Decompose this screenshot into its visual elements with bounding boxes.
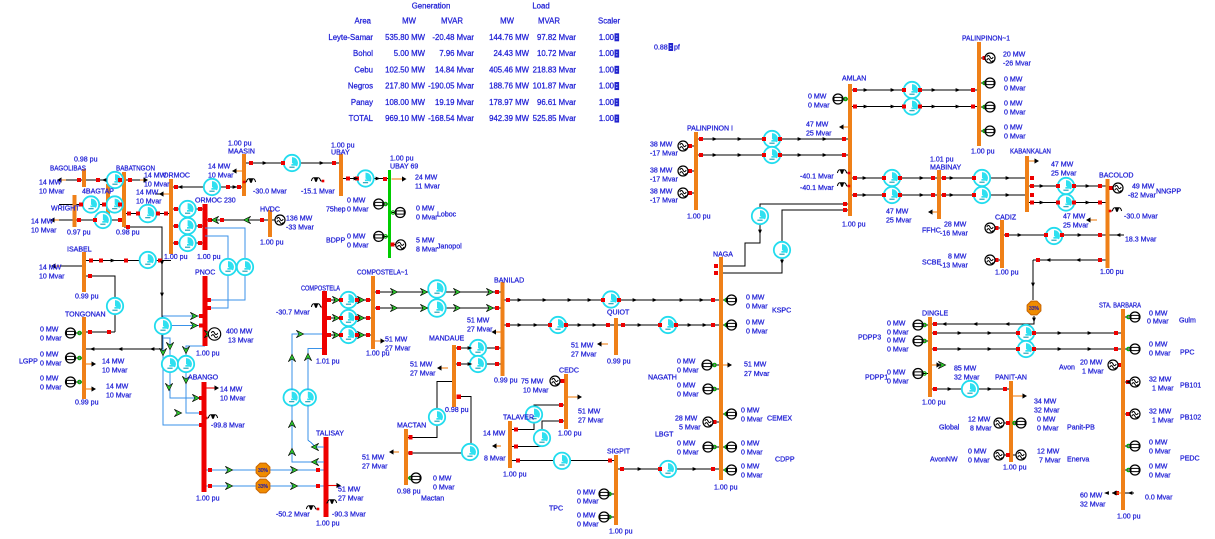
svg-text:0 Mvar: 0 Mvar <box>808 102 830 109</box>
svg-text:SCBE: SCBE <box>922 259 941 266</box>
svg-text:Area: Area <box>355 17 372 26</box>
svg-text:0 Mvar: 0 Mvar <box>887 346 909 353</box>
svg-text:0 Mvar: 0 Mvar <box>433 484 455 491</box>
svg-text:-40.1 Mvar: -40.1 Mvar <box>800 173 834 180</box>
svg-text:217.80 MW: 217.80 MW <box>385 82 426 91</box>
svg-text:10 Mvar: 10 Mvar <box>39 273 65 280</box>
svg-text:1.00 pu: 1.00 pu <box>390 155 414 162</box>
svg-text:7.96 Mvar: 7.96 Mvar <box>439 49 474 58</box>
svg-text:969.10 MW: 969.10 MW <box>385 114 426 123</box>
svg-text:MAASIN: MAASIN <box>228 148 255 155</box>
svg-text:0 Mvar: 0 Mvar <box>577 521 599 528</box>
svg-text:10 Mvar: 10 Mvar <box>31 227 57 234</box>
svg-text:4BAGTAP: 4BAGTAP <box>82 188 114 195</box>
svg-text:5.00 MW: 5.00 MW <box>394 49 426 58</box>
svg-text:0 MW: 0 MW <box>677 382 696 389</box>
svg-text:TPC: TPC <box>549 505 563 512</box>
svg-text:14 MW: 14 MW <box>220 386 243 393</box>
svg-text:27 Mvar: 27 Mvar <box>744 371 770 378</box>
svg-text:1.00 pu: 1.00 pu <box>1003 464 1027 471</box>
svg-text:144.76 MW: 144.76 MW <box>489 33 530 42</box>
svg-text:0 MW: 0 MW <box>1149 463 1168 470</box>
svg-text:HVDC: HVDC <box>260 206 280 213</box>
svg-text:0.0 Mvar: 0.0 Mvar <box>1145 494 1173 501</box>
svg-text:102.50 MW: 102.50 MW <box>385 66 426 75</box>
svg-text:BANILAD: BANILAD <box>494 277 524 284</box>
svg-text:1.00 pu: 1.00 pu <box>260 239 284 246</box>
svg-text:BACOLOD: BACOLOD <box>1099 172 1133 179</box>
svg-text:0 MW: 0 MW <box>677 440 696 447</box>
svg-text:1.00 pu: 1.00 pu <box>922 399 946 406</box>
svg-text:32 MW: 32 MW <box>1149 408 1172 415</box>
svg-text:-26 Mvar: -26 Mvar <box>1003 60 1031 67</box>
svg-text:8 Mvar: 8 Mvar <box>416 246 438 253</box>
svg-text:30%: 30% <box>258 468 269 474</box>
svg-text:0 MW: 0 MW <box>40 351 59 358</box>
svg-text:KSPC: KSPC <box>772 307 791 314</box>
svg-text:51 MW: 51 MW <box>385 336 408 343</box>
svg-text:LBGT: LBGT <box>655 431 674 438</box>
svg-text:AvonNW: AvonNW <box>930 456 958 463</box>
svg-text:Negros: Negros <box>348 82 373 91</box>
svg-text:14.84 Mvar: 14.84 Mvar <box>435 66 474 75</box>
svg-text:-90.3 Mvar: -90.3 Mvar <box>332 511 366 518</box>
svg-text:1.00 pu: 1.00 pu <box>503 471 527 478</box>
svg-text:0 MW: 0 MW <box>347 233 366 240</box>
svg-text:Enerva: Enerva <box>1067 456 1089 463</box>
svg-text:51 MW: 51 MW <box>338 486 361 493</box>
svg-text:Gulm: Gulm <box>1179 317 1196 324</box>
svg-text:0 Mvar: 0 Mvar <box>741 416 763 423</box>
svg-text:25 Mvar: 25 Mvar <box>1063 222 1089 229</box>
svg-text:0 MW: 0 MW <box>347 197 366 204</box>
svg-text:SIGPIT: SIGPIT <box>607 448 631 455</box>
svg-text:51 MW: 51 MW <box>467 317 490 324</box>
svg-text:0.98 pu: 0.98 pu <box>116 229 140 236</box>
svg-text:LGPP: LGPP <box>19 358 38 365</box>
svg-text:0 MW: 0 MW <box>1149 310 1168 317</box>
svg-text:38 MW: 38 MW <box>650 188 673 195</box>
svg-text:CEMEX: CEMEX <box>767 415 792 422</box>
svg-text:-99.8 Mvar: -99.8 Mvar <box>211 422 245 429</box>
svg-text:1.01 pu: 1.01 pu <box>316 358 340 365</box>
svg-text:20 MW: 20 MW <box>1080 359 1103 366</box>
svg-text:-190.05 Mvar: -190.05 Mvar <box>428 82 474 91</box>
svg-text:25 Mvar: 25 Mvar <box>886 217 912 224</box>
svg-text:-16 Mvar: -16 Mvar <box>940 230 968 237</box>
svg-text:pf: pf <box>674 44 680 51</box>
svg-text:0.98 pu: 0.98 pu <box>397 488 421 495</box>
svg-text:11 Mvar: 11 Mvar <box>415 183 441 190</box>
svg-text:0 Mvar: 0 Mvar <box>741 449 763 456</box>
svg-text:-50.2 Mvar: -50.2 Mvar <box>276 511 310 518</box>
svg-text:MANDAUE: MANDAUE <box>429 335 465 342</box>
svg-text:1 Mvar: 1 Mvar <box>1082 368 1104 375</box>
svg-text:1.00 pu: 1.00 pu <box>995 269 1019 276</box>
svg-text:Loboc: Loboc <box>437 211 457 218</box>
svg-text:Avon: Avon <box>1059 364 1075 371</box>
svg-text:PANIT-AN: PANIT-AN <box>995 374 1027 381</box>
svg-text:1.00 pu: 1.00 pu <box>1100 269 1124 276</box>
svg-text:ORMOC 230: ORMOC 230 <box>195 197 236 204</box>
svg-text:0.98 pu: 0.98 pu <box>74 156 98 163</box>
svg-text:TALAVER: TALAVER <box>503 414 534 421</box>
svg-text:10 Mvar: 10 Mvar <box>106 392 132 399</box>
svg-text:0 Mvar: 0 Mvar <box>40 335 62 342</box>
svg-text:51 MW: 51 MW <box>578 408 601 415</box>
svg-text:FFHC: FFHC <box>922 227 941 234</box>
svg-text:101.87 Mvar: 101.87 Mvar <box>533 82 577 91</box>
svg-text:1.00: 1.00 <box>599 66 615 75</box>
svg-text:25 Mvar: 25 Mvar <box>806 130 832 137</box>
svg-text:Janopol: Janopol <box>437 243 462 250</box>
svg-text:TONGONAN: TONGONAN <box>65 311 106 318</box>
svg-text:0 Mvar: 0 Mvar <box>347 206 369 213</box>
svg-text:0 Mvar: 0 Mvar <box>1149 350 1171 357</box>
svg-text:PPC: PPC <box>1180 349 1195 356</box>
svg-text:0 MW: 0 MW <box>887 337 906 344</box>
svg-text:TALISAY: TALISAY <box>316 430 344 437</box>
svg-text:1.00: 1.00 <box>599 33 615 42</box>
svg-text:0 MW: 0 MW <box>577 489 596 496</box>
svg-text:ORMOC: ORMOC <box>163 172 190 179</box>
svg-text:1.00 pu: 1.00 pu <box>714 484 738 491</box>
svg-text:24 MW: 24 MW <box>415 174 438 181</box>
svg-text:0 Mvar: 0 Mvar <box>1149 472 1171 479</box>
svg-text:TOTAL: TOTAL <box>349 114 374 123</box>
svg-text:96.61 Mvar: 96.61 Mvar <box>537 98 576 107</box>
svg-text:MVAR: MVAR <box>538 17 560 26</box>
svg-text:ABANGO: ABANGO <box>188 374 219 381</box>
svg-text:Generation: Generation <box>412 2 451 11</box>
svg-text:PB102: PB102 <box>1180 414 1201 421</box>
svg-text:19.19 Mvar: 19.19 Mvar <box>435 98 474 107</box>
svg-text:51 MW: 51 MW <box>410 361 433 368</box>
svg-text:10 Mvar: 10 Mvar <box>102 367 128 374</box>
svg-text:8 Mvar: 8 Mvar <box>484 455 506 462</box>
svg-text:1.00 pu: 1.00 pu <box>842 221 866 228</box>
svg-text:12 MW: 12 MW <box>968 416 991 423</box>
svg-text:0 MW: 0 MW <box>887 369 906 376</box>
svg-text:38 MW: 38 MW <box>650 141 673 148</box>
svg-text:27 Mvar: 27 Mvar <box>362 463 388 470</box>
svg-text:12 MW: 12 MW <box>1037 448 1060 455</box>
svg-text:1.00 pu: 1.00 pu <box>971 148 995 155</box>
svg-text:MVAR: MVAR <box>441 17 463 26</box>
svg-text:942.39 MW: 942.39 MW <box>489 114 530 123</box>
svg-text:0.99 pu: 0.99 pu <box>75 293 99 300</box>
svg-text:0 MW: 0 MW <box>1004 76 1023 83</box>
svg-text:0 MW: 0 MW <box>1004 124 1023 131</box>
svg-text:0 MW: 0 MW <box>577 512 596 519</box>
svg-text:5 Mvar: 5 Mvar <box>679 424 701 431</box>
svg-text:28 MW: 28 MW <box>675 415 698 422</box>
svg-text:1 Mvar: 1 Mvar <box>1152 385 1174 392</box>
svg-text:0 MW: 0 MW <box>1149 341 1168 348</box>
svg-text:1.00 pu: 1.00 pu <box>197 254 221 261</box>
svg-text:AMLAN: AMLAN <box>842 75 866 82</box>
svg-text:PDPP1: PDPP1 <box>865 374 888 381</box>
svg-text:1.00: 1.00 <box>599 82 615 91</box>
svg-text:0 Mvar: 0 Mvar <box>1004 133 1026 140</box>
svg-text:0.98 pu: 0.98 pu <box>445 407 469 414</box>
svg-text:0 MW: 0 MW <box>887 320 906 327</box>
svg-text:0.97 pu: 0.97 pu <box>67 229 91 236</box>
svg-text:-30.7 Mvar: -30.7 Mvar <box>276 309 310 316</box>
svg-text:0 MW: 0 MW <box>1004 100 1023 107</box>
svg-text:1.00: 1.00 <box>599 114 615 123</box>
svg-text:20 MW: 20 MW <box>1003 51 1026 58</box>
svg-text:1.00: 1.00 <box>599 98 615 107</box>
svg-text:14 MW: 14 MW <box>102 358 125 365</box>
svg-text:10 Mvar: 10 Mvar <box>136 198 162 205</box>
svg-text:-17 Mvar: -17 Mvar <box>650 176 678 183</box>
svg-text:Scaler: Scaler <box>598 17 621 26</box>
svg-text:47 MW: 47 MW <box>1051 161 1074 168</box>
svg-text:32 Mvar: 32 Mvar <box>1080 501 1106 508</box>
svg-text:0 MW: 0 MW <box>741 440 760 447</box>
svg-text:NNGPP: NNGPP <box>1156 188 1181 195</box>
svg-text:Leyte-Samar: Leyte-Samar <box>328 33 373 42</box>
svg-text:-17 Mvar: -17 Mvar <box>650 150 678 157</box>
svg-text:47 MW: 47 MW <box>1063 213 1086 220</box>
svg-text:0 MW: 0 MW <box>677 358 696 365</box>
svg-text:24.43 MW: 24.43 MW <box>493 49 529 58</box>
svg-text:WRIGHT: WRIGHT <box>51 205 80 212</box>
svg-text:0.88: 0.88 <box>654 44 668 51</box>
svg-text:-40.1 Mvar: -40.1 Mvar <box>800 185 834 192</box>
svg-text:51 MW: 51 MW <box>571 342 594 349</box>
svg-text:0 Mvar: 0 Mvar <box>347 242 369 249</box>
svg-text:1.00 pu: 1.00 pu <box>316 520 340 527</box>
svg-text:14 MW: 14 MW <box>208 163 231 170</box>
svg-text:-17 Mvar: -17 Mvar <box>650 197 678 204</box>
svg-text:7 Mvar: 7 Mvar <box>1039 457 1061 464</box>
svg-text:-30.0 Mvar: -30.0 Mvar <box>1124 213 1158 220</box>
svg-text:535.80 MW: 535.80 MW <box>385 33 426 42</box>
svg-text:PNOC: PNOC <box>195 269 215 276</box>
svg-text:10 Mvar: 10 Mvar <box>39 188 65 195</box>
svg-text:18.3 Mvar: 18.3 Mvar <box>1125 236 1157 243</box>
svg-text:0.99 pu: 0.99 pu <box>75 399 99 406</box>
svg-text:136 MW: 136 MW <box>286 215 313 222</box>
svg-text:27 Mvar: 27 Mvar <box>571 351 597 358</box>
svg-text:PALINPINON~1: PALINPINON~1 <box>962 35 1010 42</box>
svg-text:1.00 pu: 1.00 pu <box>609 528 633 535</box>
svg-text:Load: Load <box>532 2 549 11</box>
svg-text:0 Mvar: 0 Mvar <box>1004 109 1026 116</box>
svg-text:108.00 MW: 108.00 MW <box>385 98 426 107</box>
svg-text:1.01 pu: 1.01 pu <box>930 156 954 163</box>
svg-text:34 MW: 34 MW <box>1034 398 1057 405</box>
svg-text:0 Mvar: 0 Mvar <box>1037 425 1059 432</box>
svg-text:47 MW: 47 MW <box>806 121 829 128</box>
svg-text:14 MW: 14 MW <box>483 430 506 437</box>
svg-text:33%: 33% <box>1029 306 1040 312</box>
svg-text:Cebu: Cebu <box>354 66 373 75</box>
svg-text:51 MW: 51 MW <box>744 361 767 368</box>
svg-text:1.00 pu: 1.00 pu <box>687 213 711 220</box>
svg-text:27 Mvar: 27 Mvar <box>338 495 364 502</box>
svg-text:CDPP: CDPP <box>775 456 795 463</box>
svg-text:32 Mvar: 32 Mvar <box>954 374 980 381</box>
svg-text:0 Mvar: 0 Mvar <box>887 329 909 336</box>
svg-text:178.97 MW: 178.97 MW <box>489 98 530 107</box>
svg-text:0 MW: 0 MW <box>741 463 760 470</box>
svg-text:0 Mvar: 0 Mvar <box>677 391 699 398</box>
svg-text:0 Mvar: 0 Mvar <box>577 498 599 505</box>
svg-text:DINGLE: DINGLE <box>922 310 949 317</box>
svg-text:0 MW: 0 MW <box>433 475 452 482</box>
svg-text:5 MW: 5 MW <box>416 237 435 244</box>
svg-text:525.85 Mvar: 525.85 Mvar <box>533 114 577 123</box>
svg-text:0 Mvar: 0 Mvar <box>746 303 768 310</box>
svg-text:0 MW: 0 MW <box>40 375 59 382</box>
svg-text:27 Mvar: 27 Mvar <box>467 326 493 333</box>
svg-text:1.00 pu: 1.00 pu <box>164 254 188 261</box>
svg-text:0 Mvar: 0 Mvar <box>1149 448 1171 455</box>
svg-text:UBAY: UBAY <box>331 149 350 156</box>
svg-text:10 Mvar: 10 Mvar <box>208 172 234 179</box>
svg-text:33%: 33% <box>258 484 269 490</box>
svg-text:75hep: 75hep <box>326 206 346 213</box>
svg-text:8 MW: 8 MW <box>948 253 967 260</box>
svg-text:1.00 pu: 1.00 pu <box>196 350 220 357</box>
svg-text:10.72 Mvar: 10.72 Mvar <box>537 49 576 58</box>
svg-text:38 MW: 38 MW <box>650 167 673 174</box>
svg-text:14 MW: 14 MW <box>136 189 159 196</box>
svg-text:85 MW: 85 MW <box>954 365 977 372</box>
svg-text:-30.0 Mvar: -30.0 Mvar <box>253 188 287 195</box>
svg-text:COMPOSTELA~1: COMPOSTELA~1 <box>357 269 408 276</box>
svg-text:8 Mvar: 8 Mvar <box>970 425 992 432</box>
svg-text:188.76 MW: 188.76 MW <box>489 82 530 91</box>
svg-text:-33 Mvar: -33 Mvar <box>286 224 314 231</box>
svg-text:14 MW: 14 MW <box>39 264 62 271</box>
svg-text:STA. BARBARA: STA. BARBARA <box>1099 302 1141 309</box>
svg-text:0 Mvar: 0 Mvar <box>887 378 909 385</box>
svg-text:1.00 pu: 1.00 pu <box>1117 513 1141 520</box>
svg-text:32 Mvar: 32 Mvar <box>1034 407 1060 414</box>
svg-text:0.99 pu: 0.99 pu <box>607 358 631 365</box>
svg-text:0 MW: 0 MW <box>741 407 760 414</box>
svg-text:-82 Mvar: -82 Mvar <box>1128 192 1156 199</box>
svg-text:405.46 MW: 405.46 MW <box>489 66 530 75</box>
svg-text:MACTAN: MACTAN <box>397 422 426 429</box>
svg-text:NAGATH: NAGATH <box>648 374 677 381</box>
svg-text:0 Mvar: 0 Mvar <box>40 384 62 391</box>
svg-text:0 Mvar: 0 Mvar <box>40 360 62 367</box>
svg-text:MW: MW <box>402 17 416 26</box>
svg-text:-20.48 Mvar: -20.48 Mvar <box>432 33 474 42</box>
svg-text:BABATNGON: BABATNGON <box>116 165 155 172</box>
svg-text:27 Mvar: 27 Mvar <box>578 417 604 424</box>
svg-text:1.00 pu: 1.00 pu <box>228 140 252 147</box>
svg-text:0 MW: 0 MW <box>1149 439 1168 446</box>
svg-text:1.00 pu: 1.00 pu <box>331 142 355 149</box>
svg-text:218.83 Mvar: 218.83 Mvar <box>533 66 577 75</box>
svg-text:MABINAY: MABINAY <box>930 164 961 171</box>
svg-text:Panit-PB: Panit-PB <box>1067 424 1095 431</box>
svg-text:0 Mvar: 0 Mvar <box>677 367 699 374</box>
svg-text:QUIOT: QUIOT <box>607 309 630 316</box>
svg-text:60 MW: 60 MW <box>1080 492 1103 499</box>
svg-text:Bohol: Bohol <box>353 49 373 58</box>
svg-text:Panay: Panay <box>351 98 373 107</box>
svg-text:32 MW: 32 MW <box>1149 376 1172 383</box>
svg-text:97.82 Mvar: 97.82 Mvar <box>537 33 576 42</box>
svg-text:0 Mvar: 0 Mvar <box>1147 318 1169 325</box>
svg-text:47 MW: 47 MW <box>886 208 909 215</box>
svg-text:BDPP: BDPP <box>326 237 345 244</box>
svg-text:ISABEL: ISABEL <box>67 246 92 253</box>
svg-text:MW: MW <box>500 17 514 26</box>
svg-text:COMPOSTELA: COMPOSTELA <box>301 285 340 292</box>
svg-text:75 MW: 75 MW <box>521 378 544 385</box>
svg-text:14 MW: 14 MW <box>31 218 54 225</box>
svg-text:CEDC: CEDC <box>559 367 579 374</box>
svg-text:0.99 pu: 0.99 pu <box>494 377 518 384</box>
svg-text:0 Mvar: 0 Mvar <box>741 472 763 479</box>
svg-text:PALINPINON I: PALINPINON I <box>687 125 733 132</box>
svg-text:1.00 pu: 1.00 pu <box>196 495 220 502</box>
svg-text:14 MW: 14 MW <box>39 179 62 186</box>
svg-text:Mactan: Mactan <box>421 495 444 502</box>
svg-text:-15.1 Mvar: -15.1 Mvar <box>301 188 335 195</box>
svg-text:BAGOLIBAS: BAGOLIBAS <box>50 165 86 172</box>
svg-text:10 Mvar: 10 Mvar <box>523 387 549 394</box>
svg-text:27 Mvar: 27 Mvar <box>410 370 436 377</box>
svg-text:10 Mvar: 10 Mvar <box>220 395 246 402</box>
svg-text:0 Mvar: 0 Mvar <box>677 449 699 456</box>
svg-text:PDPP3: PDPP3 <box>858 334 881 341</box>
svg-text:0 MW: 0 MW <box>746 294 765 301</box>
svg-text:400 MW: 400 MW <box>226 328 253 335</box>
svg-text:NAGA: NAGA <box>713 251 733 258</box>
svg-text:28 MW: 28 MW <box>944 221 967 228</box>
svg-text:0 MW: 0 MW <box>40 326 59 333</box>
svg-text:0 Mvar: 0 Mvar <box>746 328 768 335</box>
svg-text:10 Mvar: 10 Mvar <box>144 181 170 188</box>
svg-text:1.00 pu: 1.00 pu <box>558 430 582 437</box>
svg-text:-168.54 Mvar: -168.54 Mvar <box>428 114 474 123</box>
svg-text:13 Mvar: 13 Mvar <box>228 337 254 344</box>
svg-text:PB101: PB101 <box>1180 382 1201 389</box>
svg-text:0 MW: 0 MW <box>968 448 987 455</box>
svg-text:0 Mvar: 0 Mvar <box>968 457 990 464</box>
svg-text:Global: Global <box>939 424 960 431</box>
svg-text:PEDC: PEDC <box>1180 455 1200 462</box>
svg-text:1 Mvar: 1 Mvar <box>1152 417 1174 424</box>
svg-text:14 MW: 14 MW <box>106 383 129 390</box>
svg-text:51 MW: 51 MW <box>362 454 385 461</box>
svg-text:KABANKALAN: KABANKALAN <box>1010 148 1051 155</box>
svg-text:0 MW: 0 MW <box>416 205 435 212</box>
svg-text:0 Mvar: 0 Mvar <box>416 214 438 221</box>
svg-text:27 Mvar: 27 Mvar <box>385 345 411 352</box>
svg-text:0 MW: 0 MW <box>746 319 765 326</box>
svg-text:49 MW: 49 MW <box>1132 183 1155 190</box>
svg-text:25 Mvar: 25 Mvar <box>1051 170 1077 177</box>
svg-text:0 Mvar: 0 Mvar <box>1004 85 1026 92</box>
svg-text:0 MW: 0 MW <box>1037 416 1056 423</box>
svg-text:0 MW: 0 MW <box>808 93 827 100</box>
svg-text:-13 Mvar: -13 Mvar <box>940 262 968 269</box>
svg-text:1.00: 1.00 <box>599 49 615 58</box>
svg-text:UBAY 69: UBAY 69 <box>390 163 418 170</box>
svg-text:CADIZ: CADIZ <box>995 214 1017 221</box>
